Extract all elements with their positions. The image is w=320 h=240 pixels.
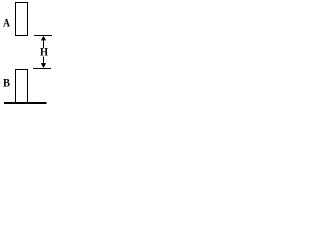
- extension line top: [34, 35, 52, 37]
- arrow down: [41, 57, 46, 69]
- arrow up: [41, 36, 46, 48]
- background: [0, 0, 52, 106]
- svg-text:A: A: [3, 16, 10, 30]
- svg-text:H: H: [40, 45, 49, 59]
- extension line bottom: [33, 68, 51, 70]
- svg-text:B: B: [3, 76, 10, 90]
- ground line: [4, 102, 47, 104]
- block A: [16, 3, 28, 36]
- block B: [16, 70, 28, 103]
